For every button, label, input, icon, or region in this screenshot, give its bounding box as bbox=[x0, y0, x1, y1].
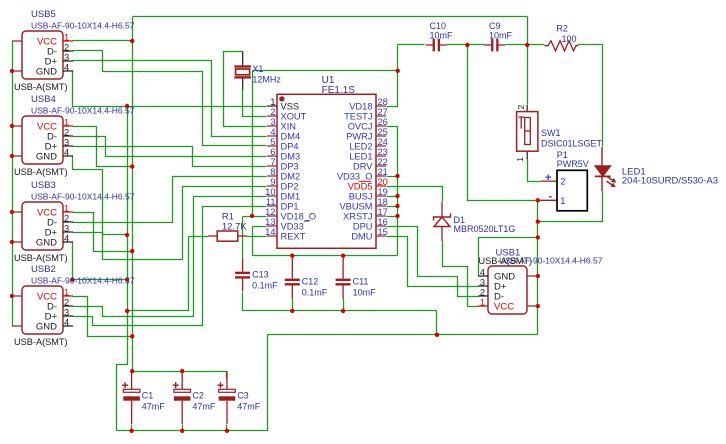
svg-text:C11: C11 bbox=[353, 277, 369, 287]
svg-text:10mF: 10mF bbox=[489, 31, 513, 41]
svg-text:8: 8 bbox=[270, 167, 275, 177]
svg-text:TESTJ: TESTJ bbox=[344, 111, 372, 121]
svg-text:DP1: DP1 bbox=[281, 201, 299, 211]
svg-text:VD18: VD18 bbox=[349, 101, 372, 111]
wire USB2 D- to pin10 DM1 bbox=[73, 197, 267, 317]
svg-text:VCC: VCC bbox=[494, 301, 514, 312]
svg-text:25: 25 bbox=[378, 127, 388, 137]
svg-text:USB-AF-90-10X14.4-H6.57: USB-AF-90-10X14.4-H6.57 bbox=[31, 276, 135, 286]
svg-text:14: 14 bbox=[265, 227, 275, 237]
svg-text:DP3: DP3 bbox=[281, 161, 299, 171]
svg-text:C2: C2 bbox=[192, 391, 204, 401]
wire pin19 BUSJ tap bbox=[387, 196, 398, 198]
wire USB2 VCC to bus bbox=[73, 297, 133, 337]
svg-text:21: 21 bbox=[378, 167, 388, 177]
svg-text:7: 7 bbox=[270, 157, 275, 167]
svg-text:XIN: XIN bbox=[281, 121, 297, 131]
svg-text:VDD5: VDD5 bbox=[348, 181, 373, 191]
svg-text:1: 1 bbox=[64, 288, 69, 298]
svg-text:VD33: VD33 bbox=[281, 221, 304, 231]
wire GND horizontal y=335 bbox=[268, 334, 538, 336]
wire VD18 horizontal y=71 bbox=[253, 70, 398, 72]
svg-text:BUSJ: BUSJ bbox=[349, 191, 373, 201]
capacitor C1 47mF polarized bbox=[122, 371, 165, 424]
wire VD33 up to pin26 OVCJ bbox=[387, 127, 398, 256]
svg-text:XOUT: XOUT bbox=[281, 111, 307, 121]
svg-text:100: 100 bbox=[562, 34, 577, 44]
svg-text:DM4: DM4 bbox=[281, 131, 301, 141]
svg-text:X1: X1 bbox=[252, 64, 263, 74]
svg-text:GND: GND bbox=[36, 66, 57, 77]
wire C1 bottom to rail bbox=[131, 425, 133, 431]
wire USB5 VCC to bus bbox=[73, 40, 133, 42]
wire USB4 VCC to bus bbox=[73, 127, 133, 167]
svg-text:1: 1 bbox=[64, 33, 69, 43]
svg-text:24: 24 bbox=[378, 137, 388, 147]
svg-text:2: 2 bbox=[270, 107, 275, 117]
wire VD18 to C10 left bbox=[398, 44, 425, 46]
wire C11 top bbox=[343, 256, 345, 260]
capacitor C11 10mF bbox=[336, 259, 377, 299]
wire USB3 D+ to pin9 DP2 bbox=[73, 187, 267, 260]
svg-text:16: 16 bbox=[378, 217, 388, 227]
svg-text:18: 18 bbox=[378, 197, 388, 207]
svg-text:VD18_O: VD18_O bbox=[281, 211, 317, 221]
svg-text:1: 1 bbox=[64, 118, 69, 128]
svg-text:3: 3 bbox=[480, 278, 485, 288]
svg-text:USB-A(SMT): USB-A(SMT) bbox=[14, 337, 68, 347]
wire C10 right to C9 left bbox=[447, 44, 485, 46]
wire USB4 D- to pin6 DM3 bbox=[73, 137, 267, 157]
wire R1 left bbox=[189, 236, 209, 238]
svg-text:10mF: 10mF bbox=[353, 288, 377, 298]
svg-text:DSIC01LSGET: DSIC01LSGET bbox=[541, 139, 603, 149]
svg-text:USB-A(SMT): USB-A(SMT) bbox=[479, 256, 533, 266]
svg-text:15: 15 bbox=[378, 227, 388, 237]
wire VDD5 pin20 to D1 cathode bbox=[387, 187, 443, 202]
svg-text:12: 12 bbox=[265, 207, 275, 217]
wire GND drop from cap rail to y=335 bbox=[436, 311, 438, 335]
svg-text:C10: C10 bbox=[430, 21, 447, 31]
svg-text:USB-AF-90-10X14.4-H6.57: USB-AF-90-10X14.4-H6.57 bbox=[31, 106, 135, 116]
svg-text:2: 2 bbox=[480, 288, 485, 298]
wire VD18 net: cap row down to pin28 bbox=[387, 45, 398, 107]
svg-text:4: 4 bbox=[64, 148, 69, 158]
wire shield bus x=12 bbox=[12, 41, 14, 327]
wire USB3 D- to pin8 DM2 bbox=[73, 177, 267, 223]
svg-text:1: 1 bbox=[560, 196, 565, 207]
wire pin15 DMU to USB1 D+ bbox=[387, 237, 479, 287]
svg-text:MBR0520LT1G: MBR0520LT1G bbox=[454, 224, 516, 234]
wire pin17 XRSTJ tap bbox=[387, 216, 398, 218]
wire C11 bottom bbox=[343, 299, 345, 311]
svg-text:USB-AF-90-10X14.4-H6.57: USB-AF-90-10X14.4-H6.57 bbox=[31, 21, 135, 31]
svg-text:47mF: 47mF bbox=[237, 402, 261, 412]
svg-text:2: 2 bbox=[64, 43, 69, 53]
connector USB2 USB-A(SMT) bbox=[12, 264, 135, 347]
svg-text:47mF: 47mF bbox=[192, 402, 216, 412]
svg-text:12MHz: 12MHz bbox=[252, 75, 281, 85]
svg-text:3: 3 bbox=[64, 308, 69, 318]
svg-text:22: 22 bbox=[378, 157, 388, 167]
svg-text:3: 3 bbox=[64, 53, 69, 63]
wire VD18_O vertical x=252 bbox=[252, 71, 254, 217]
svg-text:C12: C12 bbox=[302, 277, 319, 287]
svg-text:USB2: USB2 bbox=[31, 264, 56, 275]
wire VCC vertical bus x=132 bbox=[132, 17, 134, 372]
svg-text:3: 3 bbox=[270, 117, 275, 127]
wire VD18_O to pin12 bbox=[243, 216, 267, 218]
wire cap bottom rail y=311 bbox=[243, 293, 437, 311]
wire GND vertical right x=538 bbox=[537, 201, 539, 335]
wire GND to P1 pin1 bbox=[538, 200, 541, 202]
wire GND main vertical x=127 with jog to bottom rail bbox=[117, 107, 128, 431]
wire C9 right to SW node bbox=[506, 44, 528, 46]
svg-text:2: 2 bbox=[516, 105, 526, 110]
svg-text:DP2: DP2 bbox=[281, 181, 299, 191]
wire R1 to GND bbox=[128, 237, 189, 311]
svg-text:USB-AF-90-10X14.4-H6.57: USB-AF-90-10X14.4-H6.57 bbox=[31, 192, 135, 202]
svg-text:6: 6 bbox=[270, 147, 275, 157]
wire VCC to SW1 top bbox=[527, 17, 529, 105]
svg-text:5: 5 bbox=[270, 137, 275, 147]
wire pin21 VD33_O tap bbox=[387, 176, 398, 178]
svg-text:0.1mF: 0.1mF bbox=[252, 281, 278, 291]
svg-text:DMU: DMU bbox=[351, 231, 372, 241]
svg-text:26: 26 bbox=[378, 117, 388, 127]
wire pin18 VBUSM tap bbox=[387, 206, 398, 208]
svg-text:GND: GND bbox=[36, 151, 57, 162]
svg-text:1: 1 bbox=[270, 97, 275, 107]
svg-text:GND: GND bbox=[36, 237, 57, 248]
wire USB4 D+ to pin7 DP3 bbox=[73, 147, 267, 167]
svg-text:PWR5V: PWR5V bbox=[557, 159, 589, 169]
svg-text:10mF: 10mF bbox=[430, 31, 454, 41]
wire USB3 GND down to main GND bbox=[73, 243, 128, 280]
wire R2 right down to LED1 bbox=[578, 45, 603, 147]
diode D1 MBR0520LT1G bbox=[434, 202, 516, 242]
svg-text:XRSTJ: XRSTJ bbox=[343, 211, 372, 221]
wire VD33 rail y=256 bbox=[253, 227, 398, 256]
svg-text:REXT: REXT bbox=[281, 231, 306, 241]
svg-text:SW1: SW1 bbox=[541, 128, 561, 138]
svg-text:USB3: USB3 bbox=[31, 180, 56, 191]
svg-text:20: 20 bbox=[378, 177, 388, 187]
svg-text:4: 4 bbox=[480, 268, 485, 278]
svg-text:2: 2 bbox=[64, 214, 69, 224]
wire VD18_O down to C13 bbox=[242, 217, 244, 259]
svg-text:47mF: 47mF bbox=[142, 402, 166, 412]
svg-text:3: 3 bbox=[64, 138, 69, 148]
wire XOUT net: X1 bottom to pin2 bbox=[243, 90, 267, 117]
wire XIN net: X1 top to pin3 bbox=[224, 52, 267, 127]
svg-text:4: 4 bbox=[64, 318, 69, 328]
svg-text:C1: C1 bbox=[142, 391, 154, 401]
connector P1 PWR5V bbox=[541, 150, 589, 211]
svg-text:DRV: DRV bbox=[353, 161, 373, 171]
connector USB4 USB-A(SMT) bbox=[12, 94, 135, 177]
svg-text:4: 4 bbox=[270, 127, 275, 137]
svg-text:USB4: USB4 bbox=[31, 94, 56, 105]
svg-text:VD33_O: VD33_O bbox=[337, 171, 373, 181]
svg-text:1: 1 bbox=[515, 157, 525, 162]
wire LED1 cathode to GND net bbox=[538, 191, 603, 222]
wire C-bank top rail y=371 bbox=[133, 372, 227, 379]
connector USB5 USB-A(SMT) bbox=[12, 9, 135, 92]
svg-text:28: 28 bbox=[378, 97, 388, 107]
wire VSS: USB5 GND down and to pin1 bbox=[73, 71, 267, 107]
svg-text:2: 2 bbox=[64, 298, 69, 308]
wire GND from C10/C9 mid down bbox=[468, 45, 538, 201]
wire pin16 DPU to USB1 D- bbox=[387, 227, 479, 297]
capacitor C12 0.1mF bbox=[285, 259, 328, 299]
svg-text:11: 11 bbox=[266, 197, 276, 207]
capacitor C3 47mF polarized bbox=[218, 371, 261, 424]
svg-text:LED1: LED1 bbox=[349, 151, 372, 161]
svg-text:DPU: DPU bbox=[353, 221, 373, 231]
svg-text:GND: GND bbox=[36, 321, 57, 332]
svg-text:19: 19 bbox=[378, 187, 388, 197]
svg-text:DM3: DM3 bbox=[281, 151, 301, 161]
connector USB1 USB-A(SMT) bbox=[478, 248, 603, 315]
svg-text:23: 23 bbox=[378, 147, 388, 157]
switch SW1 DSIC01LSGET bbox=[515, 105, 603, 162]
svg-text:USB-A(SMT): USB-A(SMT) bbox=[14, 82, 68, 92]
svg-text:13: 13 bbox=[265, 217, 275, 227]
svg-text:0.1mF: 0.1mF bbox=[302, 288, 328, 298]
svg-text:VSS: VSS bbox=[281, 101, 300, 111]
wire C2 bottom to rail bbox=[182, 425, 184, 431]
svg-text:4: 4 bbox=[64, 63, 69, 73]
resistor R1 12.7K bbox=[209, 211, 248, 241]
svg-text:C9: C9 bbox=[489, 21, 501, 31]
svg-text:USB-A(SMT): USB-A(SMT) bbox=[14, 253, 68, 263]
wire VD33 pin13 bbox=[253, 226, 267, 228]
wire C12 bottom bbox=[292, 299, 294, 311]
IC U1 FE1.1S bbox=[265, 75, 388, 248]
wire USB1 GND up to GND net bbox=[479, 238, 538, 277]
svg-text:204-10SURD/S530-A3: 204-10SURD/S530-A3 bbox=[622, 175, 718, 186]
resistor R2 100 bbox=[545, 24, 578, 51]
svg-text:9: 9 bbox=[270, 177, 275, 187]
svg-text:LED2: LED2 bbox=[349, 141, 372, 151]
wire USB3 VCC to bus bbox=[73, 213, 133, 252]
capacitor C9 10mF bbox=[484, 21, 512, 51]
capacitor C2 47mF polarized bbox=[173, 371, 216, 424]
svg-text:2: 2 bbox=[64, 128, 69, 138]
wire C3 bottom to rail bbox=[226, 425, 228, 431]
svg-text:2: 2 bbox=[560, 177, 565, 188]
svg-text:USB-A(SMT): USB-A(SMT) bbox=[14, 167, 68, 177]
wire USB5 D+ to pin4 DM4 bbox=[73, 61, 267, 137]
wire USB2 D+ to pin11 DP1 bbox=[73, 207, 267, 326]
svg-text:USB5: USB5 bbox=[31, 9, 56, 20]
wire VCC top rail bbox=[133, 16, 528, 18]
connector USB3 USB-A(SMT) bbox=[12, 180, 135, 263]
capacitor C13 0.1mF bbox=[235, 258, 278, 292]
capacitor C10 10mF bbox=[426, 21, 453, 51]
svg-text:DP4: DP4 bbox=[281, 141, 299, 151]
crystal X1 12MHz bbox=[234, 51, 281, 89]
svg-text:DM2: DM2 bbox=[281, 171, 301, 181]
svg-text:4: 4 bbox=[64, 234, 69, 244]
svg-text:17: 17 bbox=[378, 207, 388, 217]
wire GND bottom rail C1-C3 bbox=[117, 335, 268, 431]
wire D1 anode to USB1 VCC bbox=[443, 242, 479, 307]
svg-text:DM1: DM1 bbox=[281, 191, 301, 201]
svg-text:10: 10 bbox=[265, 187, 275, 197]
svg-text:+: + bbox=[545, 172, 551, 184]
svg-text:PWRJ: PWRJ bbox=[346, 131, 372, 141]
wire node to R2 left bbox=[528, 44, 545, 46]
LED LED1 204-10SURD/S530-A3 bbox=[595, 147, 718, 191]
wire USB5 D- to pin5 DP4 bbox=[73, 51, 267, 146]
svg-text:C3: C3 bbox=[237, 391, 249, 401]
svg-text:C13: C13 bbox=[252, 270, 269, 280]
wire USB4 GND to main GND bbox=[73, 157, 128, 235]
wire R1 right to pin14 REXT bbox=[247, 236, 267, 238]
svg-text:1: 1 bbox=[64, 204, 69, 214]
svg-text:-: - bbox=[549, 191, 553, 203]
svg-text:OVCJ: OVCJ bbox=[348, 121, 373, 131]
svg-text:VBUSM: VBUSM bbox=[339, 201, 372, 211]
svg-text:3: 3 bbox=[64, 224, 69, 234]
svg-text:R2: R2 bbox=[556, 24, 568, 34]
svg-text:27: 27 bbox=[378, 107, 388, 117]
svg-text:1: 1 bbox=[480, 298, 485, 308]
wire SW1 bottom to P1 pin2 bbox=[528, 159, 541, 182]
svg-text:12.7K: 12.7K bbox=[222, 221, 247, 232]
svg-text:FE1.1S: FE1.1S bbox=[322, 85, 356, 96]
wire C12 top bbox=[292, 256, 294, 260]
